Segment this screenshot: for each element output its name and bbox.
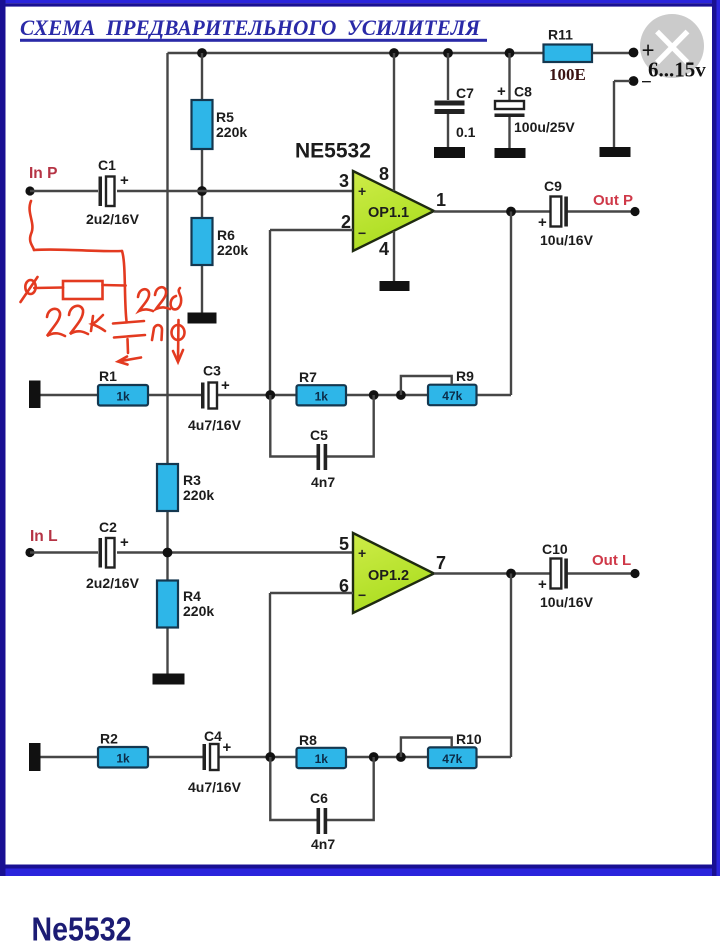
svg-text:5: 5 bbox=[339, 534, 349, 554]
svg-text:C2: C2 bbox=[99, 519, 117, 535]
svg-text:+: + bbox=[497, 83, 506, 100]
svg-text:+: + bbox=[358, 545, 366, 561]
svg-text:1k: 1k bbox=[315, 752, 329, 766]
svg-text:220k: 220k bbox=[183, 487, 214, 503]
svg-text:R8: R8 bbox=[299, 732, 317, 748]
svg-text:R7: R7 bbox=[299, 369, 317, 385]
svg-text:+: + bbox=[120, 172, 129, 189]
svg-text:+: + bbox=[221, 377, 230, 394]
svg-text:СХЕМА ПРЕДВАРИТЕЛЬНОГО УСИЛИ: СХЕМА ПРЕДВАРИТЕЛЬНОГО УСИЛИТЕЛЯ bbox=[20, 15, 481, 40]
svg-text:R3: R3 bbox=[183, 472, 201, 488]
svg-text:10u/16V: 10u/16V bbox=[540, 594, 594, 610]
svg-text:Out L: Out L bbox=[592, 552, 631, 569]
svg-text:C6: C6 bbox=[310, 790, 328, 806]
svg-text:2u2/16V: 2u2/16V bbox=[86, 575, 140, 591]
svg-text:+: + bbox=[358, 183, 366, 199]
svg-text:C10: C10 bbox=[542, 541, 568, 557]
svg-text:In P: In P bbox=[29, 165, 57, 182]
svg-text:1k: 1k bbox=[116, 751, 130, 765]
svg-text:8: 8 bbox=[379, 164, 389, 184]
svg-text:R2: R2 bbox=[100, 731, 118, 747]
svg-text:100E: 100E bbox=[549, 65, 586, 84]
svg-text:47k: 47k bbox=[442, 752, 462, 766]
svg-text:100u/25V: 100u/25V bbox=[514, 119, 575, 135]
svg-text:C5: C5 bbox=[310, 427, 328, 443]
svg-text:4n7: 4n7 bbox=[311, 474, 335, 490]
svg-text:R5: R5 bbox=[216, 109, 234, 125]
svg-text:−: − bbox=[358, 587, 366, 603]
svg-text:10u/16V: 10u/16V bbox=[540, 232, 594, 248]
svg-text:C8: C8 bbox=[514, 84, 532, 100]
svg-text:+: + bbox=[120, 534, 129, 551]
svg-text:4u7/16V: 4u7/16V bbox=[188, 417, 242, 433]
svg-text:R9: R9 bbox=[456, 368, 474, 384]
svg-text:6...15v: 6...15v bbox=[648, 58, 706, 82]
svg-text:+: + bbox=[538, 576, 547, 593]
svg-text:220k: 220k bbox=[217, 242, 248, 258]
svg-text:C9: C9 bbox=[544, 178, 562, 194]
svg-text:R10: R10 bbox=[456, 731, 482, 747]
svg-text:R4: R4 bbox=[183, 588, 201, 604]
svg-text:C4: C4 bbox=[204, 728, 222, 744]
svg-text:R6: R6 bbox=[217, 227, 235, 243]
svg-text:4: 4 bbox=[379, 239, 389, 259]
svg-text:Out P: Out P bbox=[593, 192, 633, 209]
svg-text:7: 7 bbox=[436, 553, 446, 573]
svg-text:47k: 47k bbox=[442, 389, 462, 403]
svg-text:+: + bbox=[223, 739, 232, 756]
svg-text:3: 3 bbox=[339, 171, 349, 191]
svg-text:0.1: 0.1 bbox=[456, 124, 476, 140]
svg-text:OP1.1: OP1.1 bbox=[368, 205, 409, 221]
svg-text:1: 1 bbox=[436, 190, 446, 210]
svg-text:R1: R1 bbox=[99, 368, 117, 384]
svg-text:4u7/16V: 4u7/16V bbox=[188, 779, 242, 795]
svg-text:220k: 220k bbox=[216, 124, 247, 140]
svg-text:OP1.2: OP1.2 bbox=[368, 568, 409, 584]
svg-text:220k: 220k bbox=[183, 603, 214, 619]
svg-text:NE5532: NE5532 bbox=[295, 140, 371, 163]
svg-text:4n7: 4n7 bbox=[311, 836, 335, 852]
svg-text:+: + bbox=[538, 214, 547, 231]
svg-text:C7: C7 bbox=[456, 85, 474, 101]
svg-text:−: − bbox=[358, 225, 366, 241]
svg-text:C3: C3 bbox=[203, 363, 221, 379]
svg-text:2u2/16V: 2u2/16V bbox=[86, 211, 140, 227]
svg-text:Ne5532: Ne5532 bbox=[32, 911, 132, 948]
svg-text:R11: R11 bbox=[548, 27, 573, 43]
svg-text:1k: 1k bbox=[315, 389, 329, 403]
svg-text:1k: 1k bbox=[116, 389, 130, 403]
svg-text:In L: In L bbox=[30, 528, 58, 545]
svg-text:C1: C1 bbox=[98, 157, 116, 173]
